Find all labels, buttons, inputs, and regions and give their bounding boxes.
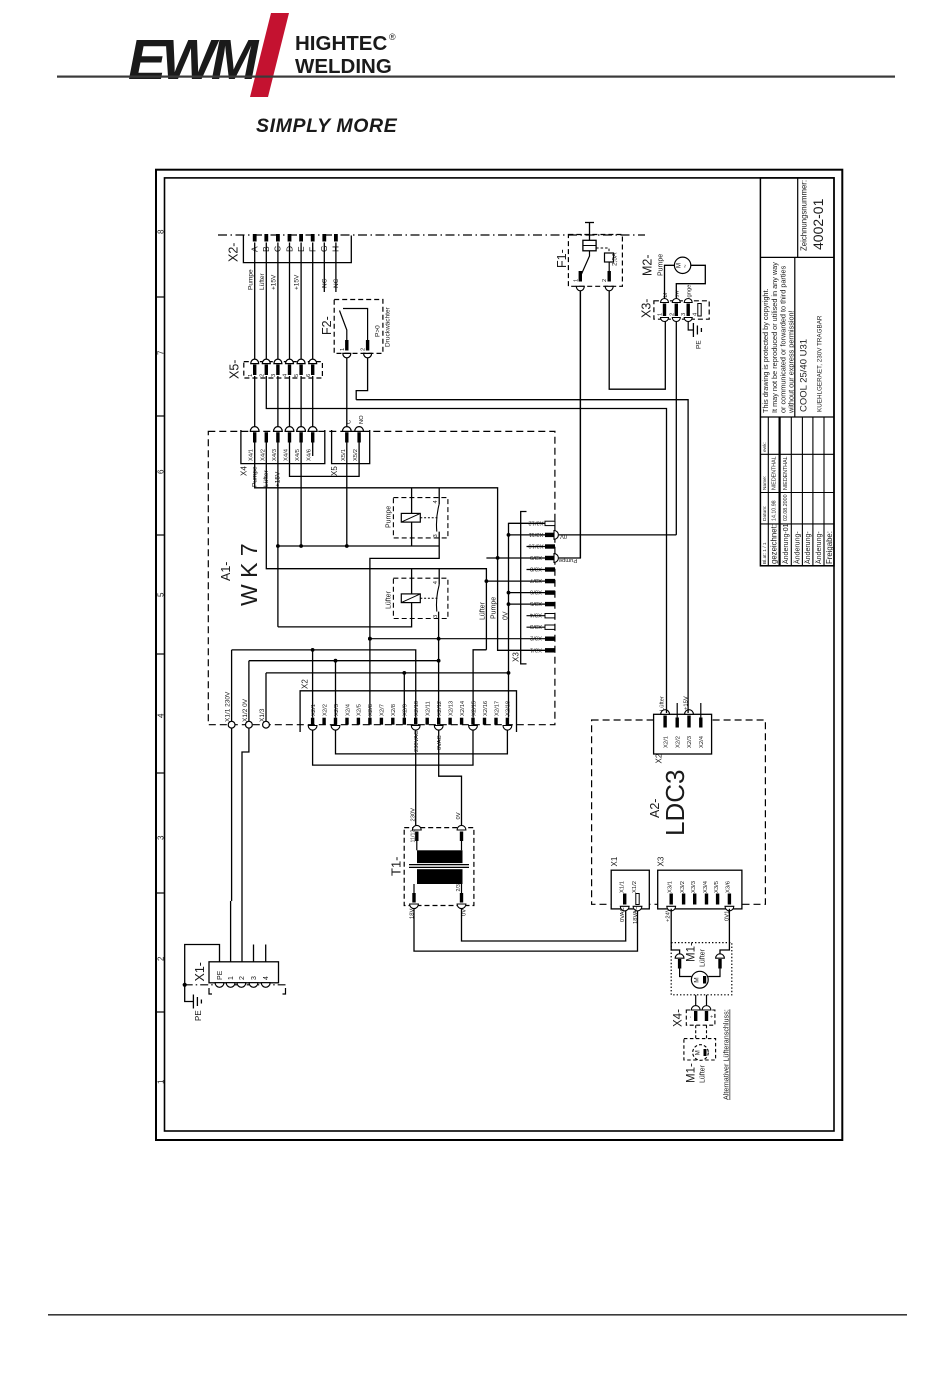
X3/2 row line (370, 638, 545, 640)
svg-text:without our express permission: without our express permission! (787, 310, 796, 414)
wire X3-2 down to 0V line (675, 321, 677, 535)
wire X4/1 to pump drive line (255, 443, 498, 558)
svg-text:gezeichnet:: gezeichnet: (770, 524, 779, 564)
junction bus3 X2/9 (402, 671, 406, 675)
stub X1- pin3 (253, 945, 255, 962)
svg-text:X1/2: X1/2 (632, 881, 638, 893)
svg-text:X2/10: X2/10 (414, 701, 420, 716)
svg-text:X3/11: X3/11 (529, 531, 544, 537)
X2- pin E (299, 234, 303, 242)
svg-text:X2/4: X2/4 (345, 703, 351, 716)
svg-text:X2/1: X2/1 (311, 704, 317, 716)
svg-text:PE: PE (696, 340, 703, 349)
svg-text:X4: X4 (240, 466, 249, 476)
svg-text:X2/13: X2/13 (448, 701, 454, 716)
F2 pin 1 (345, 340, 348, 351)
T1 primary socket arc right (457, 825, 466, 830)
T1 secondary wire left (413, 884, 415, 893)
svg-text:5: 5 (157, 592, 166, 597)
junction X4/3 +15V (276, 544, 280, 548)
line H2 fan supply from X5-2 (266, 376, 666, 713)
junction bus1 X2/1 (311, 648, 315, 652)
svg-text:2: 2 (669, 313, 675, 316)
svg-text:+: + (710, 1015, 716, 1018)
A2 X1 connector box (611, 870, 649, 909)
A2 X3 socket arcs (667, 906, 734, 911)
wire X2-C to X5-3 (277, 243, 279, 362)
svg-text:X1-: X1- (193, 962, 207, 981)
T1 primary pin left (415, 832, 418, 842)
svg-text:NC: NC (322, 278, 329, 288)
svg-text:X4/5: X4/5 (295, 449, 301, 461)
T1 secondary socket arc left (410, 904, 419, 909)
svg-text:T1-: T1- (389, 857, 404, 877)
svg-text:X3/5: X3/5 (714, 881, 720, 893)
junction X3/7 fan rail (485, 579, 489, 583)
F2 pin 1 socket arc (343, 353, 351, 358)
drawing outer frame (156, 170, 842, 1140)
relay K2 Luefter dashed box (393, 578, 448, 618)
X1- mating bracket (209, 988, 212, 994)
svg-text:6: 6 (157, 469, 166, 474)
svg-text:NO: NO (359, 415, 365, 424)
title block divider row1/row2 (760, 256, 834, 258)
wire X4/2 to fan drive line (266, 443, 486, 650)
wire X2/12 arc to T1 primary 0V (439, 730, 462, 825)
svg-text:X2/6: X2/6 (368, 704, 374, 716)
svg-text:X2/18: X2/18 (506, 701, 512, 716)
F2 pin 2 socket arc (364, 353, 372, 358)
X3/9 row line (486, 557, 545, 559)
wire A1-X1/2 down with jog to X1- pin2 (242, 728, 249, 962)
X2- pin F (311, 234, 315, 242)
riser X1/1 (231, 650, 233, 721)
wire X2/18 arc loop to X2/3 arc (336, 730, 508, 754)
bus1 230V line (232, 650, 416, 718)
wire F1/1 down to X3/9 exit line (579, 291, 581, 558)
relay K2 coil (401, 594, 420, 603)
transformer T1- dashed box (404, 828, 474, 906)
svg-text:+15V: +15V (271, 274, 278, 290)
svg-text:M: M (694, 977, 701, 982)
X3/6 row line (509, 592, 546, 594)
svg-text:Lüfter: Lüfter (480, 601, 487, 620)
wire X1- pin1 up (230, 901, 232, 962)
F1 pin 1 socket arc (576, 286, 584, 291)
svg-text:0V: 0V (560, 533, 567, 539)
fan relay contact-4 wire (438, 569, 440, 585)
X3- pin 4 open (698, 304, 701, 317)
T1 primary wire right (461, 841, 463, 850)
svg-text:2: 2 (602, 279, 608, 282)
svg-text:2: 2 (239, 976, 246, 980)
T1 primary socket arc left (412, 825, 421, 830)
X3- pin 2 (675, 304, 678, 317)
wire X5/2 to X4/4 link (290, 443, 360, 477)
svg-text:02.08.2000: 02.08.2000 (783, 494, 789, 521)
svg-text:X5: X5 (330, 466, 339, 476)
X5 pin labels (341, 449, 359, 461)
svg-text:X2/17: X2/17 (494, 701, 500, 716)
F2 switch fixed contact (343, 309, 368, 341)
riser X1/2 (248, 661, 250, 722)
svg-text:X5/2: X5/2 (353, 449, 359, 461)
X5- pin numbers (248, 373, 312, 377)
wire X5-4 through to X4/4 (289, 376, 291, 427)
X2- pin B (264, 234, 268, 242)
wire X3-3 to PE (688, 321, 693, 330)
svg-text:4: 4 (263, 976, 270, 980)
F1 pin 2 socket arc (605, 286, 613, 291)
svg-text:11/12: 11/12 (411, 830, 417, 843)
T1 secondary winding bar (417, 869, 463, 884)
svg-text:X4/4: X4/4 (284, 448, 290, 461)
junction X4/5 +15V (299, 544, 303, 548)
wire X5-3 through to X4/3 (277, 376, 279, 427)
relay K1 contact blade (436, 504, 439, 532)
stub X1- pin4 (265, 945, 267, 962)
X3 pins filled (545, 533, 555, 653)
wire X2-F to X5-6 (312, 243, 314, 362)
svg-text:0V: 0V (462, 909, 468, 916)
X3/8 stub (527, 569, 546, 571)
alt fan dashed box (684, 1039, 716, 1060)
junction X2/6 riser (368, 637, 372, 641)
X3- pin 3 (687, 304, 690, 317)
svg-text:KUEHLGERAET, 230V TRAGBAR: KUEHLGERAET, 230V TRAGBAR (817, 315, 824, 412)
A2 X3 connector box (658, 870, 742, 909)
wire M1 box to X4- left (695, 995, 697, 1009)
svg-text:HIGHTEC: HIGHTEC (295, 32, 387, 55)
alt fan dashed stub left (695, 1025, 697, 1038)
svg-text:It may not be reproduced or ut: It may not be reproduced or utilised in … (770, 262, 779, 413)
svg-text:Änderung-: Änderung- (794, 531, 802, 564)
svg-text:X4/3: X4/3 (272, 449, 278, 461)
wire M1 box to X4- right (706, 995, 708, 1009)
motor M2 circle (674, 257, 690, 273)
M1 terminal right pin (718, 959, 721, 969)
svg-text:Lüfter: Lüfter (700, 1064, 707, 1083)
A2 X1 pin 2 open (636, 894, 639, 905)
svg-text:Freigabe:: Freigabe: (825, 531, 834, 564)
svg-text:X3/3: X3/3 (530, 623, 542, 629)
F1 pin 2 link (608, 262, 610, 271)
svg-text:X1/1: X1/1 (619, 881, 625, 893)
svg-text:X2/3: X2/3 (687, 736, 693, 748)
title block divider row2/row3 (760, 416, 834, 418)
pump rail lower segment (498, 558, 545, 650)
svg-text:X2/5: X2/5 (357, 704, 363, 716)
F1 holder contact (605, 253, 614, 262)
X2- pin H (334, 234, 338, 242)
A1 X1/2 terminal circle (246, 721, 253, 728)
svg-text:X2/12: X2/12 (437, 701, 443, 716)
wire X2/10 arc to T1 primary (415, 730, 417, 825)
mains connector X1- box (209, 962, 279, 983)
T1 core lines (409, 864, 469, 866)
X3/9 exit wire Pumpe (559, 291, 581, 558)
F1 fuse element (583, 240, 596, 251)
svg-text:4: 4 (157, 713, 166, 718)
F2 switch contact (340, 311, 347, 341)
relay K2 contact blade (436, 585, 439, 612)
wire PE loop (185, 945, 220, 1002)
svg-text:F2-: F2- (320, 316, 334, 335)
M1 motor pin mark (703, 976, 706, 984)
svg-text:Pumpe: Pumpe (386, 506, 393, 528)
0V rail junction X3/6 (507, 591, 511, 595)
X2- pin D (288, 234, 292, 242)
relay K1 coil (401, 513, 420, 522)
wire A1-X1/1 down to X1- pin1 (231, 728, 233, 901)
svg-text:SIMPLY MORE: SIMPLY MORE (256, 115, 398, 137)
A2 X1 pins (623, 894, 626, 905)
svg-text:2: 2 (157, 956, 166, 961)
relay K2 mechanical link (420, 597, 437, 599)
svg-text:X3/1: X3/1 (668, 881, 674, 893)
A1 X2 connector bracket (300, 691, 516, 732)
svg-text:2,5A: 2,5A (612, 252, 619, 266)
X2 row pin labels (311, 700, 512, 716)
X3/11 exit wire 0V (559, 534, 677, 536)
svg-text:3: 3 (433, 615, 439, 618)
svg-text:7: 7 (157, 350, 166, 355)
F1 pin 1 (579, 271, 582, 282)
bus3 line (266, 672, 509, 674)
junction bus2 fan contact riser (437, 659, 441, 663)
svg-text:X2/2: X2/2 (322, 704, 328, 716)
svg-text:NIEDENTHAL: NIEDENTHAL (783, 456, 789, 490)
wire X5/1 down to +15V (346, 443, 348, 547)
pump relay contact-4 wire (438, 488, 440, 504)
svg-text:X3/2: X3/2 (530, 635, 542, 641)
svg-text:3: 3 (433, 534, 439, 537)
connector X4- dashed box (686, 1010, 715, 1025)
X1- socket arcs (215, 983, 270, 988)
svg-text:X4/6: X4/6 (307, 449, 313, 461)
X2- pin G (322, 234, 326, 242)
svg-text:X3/6: X3/6 (726, 881, 732, 893)
svg-text:18VAC: 18VAC (633, 906, 639, 924)
svg-text:1: 1 (658, 313, 664, 316)
stub X2-G NC (323, 243, 325, 293)
X3/11 row line (509, 534, 546, 536)
X3 pin labels upside down (528, 519, 543, 652)
svg-text:Änderung-01: Änderung-01 (782, 523, 790, 564)
wire M2 right loop (676, 265, 705, 299)
svg-text:gnge: gnge (687, 285, 693, 298)
svg-text:1: 1 (157, 1079, 166, 1084)
svg-text:14.10.98: 14.10.98 (772, 500, 778, 521)
svg-text:X2: X2 (301, 679, 310, 689)
logo red slash (250, 13, 289, 97)
svg-text:Druckwächter: Druckwächter (385, 306, 392, 347)
revision table strip dividers (768, 417, 824, 566)
svg-text:This drawing is protected by c: This drawing is protected by copyright. (761, 288, 770, 413)
svg-text:Lüfter: Lüfter (700, 948, 707, 967)
fuse F1- dashed box (568, 235, 622, 287)
wire F2/1 down to A1-X5/1 (346, 358, 348, 427)
svg-text:Zeichnungsnummer:: Zeichnungsnummer: (800, 180, 809, 251)
A2 X3 pin labels (668, 880, 732, 893)
X3/11 exit socket arc (554, 531, 558, 540)
X2 row socket arcs below (308, 726, 512, 731)
footer rule (48, 1314, 907, 1316)
A2 X1 pin labels (619, 881, 638, 893)
svg-text:P>0: P>0 (375, 325, 382, 337)
svg-text:6: 6 (306, 374, 312, 377)
connector X2- bracket (243, 236, 351, 263)
wire X2-B to X5-2 (265, 243, 267, 362)
F1 entry wire (589, 223, 591, 241)
X3/7 row line (486, 580, 545, 582)
boundary dash-dot line through X2- pins (218, 234, 645, 236)
svg-text:X2/1: X2/1 (663, 736, 669, 748)
svg-text:X3: X3 (657, 856, 666, 866)
svg-text:+15V: +15V (294, 274, 301, 290)
svg-text:X2-: X2- (227, 243, 241, 262)
svg-text:X1: X1 (610, 856, 619, 866)
svg-text:X3/4: X3/4 (703, 880, 709, 893)
grid ticks left edge (156, 297, 165, 1012)
svg-text:ewk:: ewk: (762, 442, 768, 452)
svg-text:X2/4: X2/4 (699, 735, 705, 748)
svg-text:NIEDENTHAL: NIEDENTHAL (772, 456, 778, 490)
A1 X3 connector bracket (521, 512, 527, 664)
X3 pins open (545, 521, 555, 629)
X3- pin numbers (658, 312, 699, 316)
relay K1 mechanical link (420, 517, 437, 519)
junction fan line X2/6 (368, 637, 372, 641)
junction PE on dash-dot (183, 983, 187, 987)
svg-text:X3/9: X3/9 (530, 554, 542, 560)
relay K1 coil diagonal (401, 513, 420, 522)
drawing inner frame (165, 178, 835, 1131)
X2- pin A (253, 234, 257, 242)
T1 primary pin right (460, 832, 463, 842)
A1 X1/1 terminal circle (228, 721, 235, 728)
svg-text:M1-: M1- (686, 1063, 698, 1083)
T1 secondary socket arc right (457, 904, 466, 909)
X3/10 stub (527, 546, 546, 548)
svg-text:X2/8: X2/8 (391, 704, 397, 716)
0V rail (509, 523, 546, 717)
svg-text:8: 8 (157, 229, 166, 234)
stub X4/6 (312, 443, 314, 457)
wire M1 right terminal to motor (708, 969, 720, 977)
wire X2-A to X5-1 (254, 243, 256, 362)
svg-text:M: M (677, 263, 683, 268)
svg-text:WELDING: WELDING (295, 55, 392, 78)
svg-text:X3/12: X3/12 (528, 519, 543, 525)
M1 motor circle (691, 971, 708, 988)
pressure switch F2- dashed box (334, 300, 383, 354)
X3- socket arcs bottom (661, 318, 693, 322)
A2 X3 pins (670, 894, 732, 905)
riser X2/9 to bus3 (403, 673, 405, 718)
T1 secondary pin left (412, 893, 415, 903)
svg-text:Lüfter: Lüfter (660, 696, 666, 711)
relay K1 contact-3 to X2/6 riser (370, 532, 439, 718)
alt fan motor pin mark (704, 1049, 707, 1056)
svg-text:X2/16: X2/16 (483, 701, 489, 716)
svg-text:X2/9: X2/9 (403, 704, 409, 716)
wire X2-E to X5-5 (300, 243, 302, 362)
T1 secondary pin right (460, 893, 463, 903)
svg-text:X3/5: X3/5 (530, 600, 542, 606)
line H1 pump supply (356, 400, 688, 713)
A2 X2 pin labels (663, 735, 705, 748)
svg-text:1: 1 (340, 348, 346, 351)
svg-text:NC: NC (333, 278, 340, 288)
svg-text:X3/10: X3/10 (528, 543, 543, 549)
svg-text:X3/3: X3/3 (691, 881, 697, 893)
relay K2 contact-3 riser to X2/12 (438, 612, 440, 718)
M1 terminal left arc (675, 954, 684, 958)
svg-text:X3/7: X3/7 (530, 577, 542, 583)
X3- socket arcs top (661, 299, 693, 303)
svg-text:3: 3 (271, 374, 277, 377)
A2 X2 pin stubs (676, 703, 678, 718)
svg-text:X2/2: X2/2 (675, 736, 681, 748)
svg-text:X2/7: X2/7 (380, 704, 386, 716)
X1- pin labels (217, 970, 270, 980)
pump relay coil top wire (411, 488, 413, 514)
relay K2 coil bottom wire (278, 603, 412, 627)
relay K1 coil bottom wire (411, 522, 413, 546)
connector X5- dashed box (244, 362, 323, 378)
svg-text:X5/1: X5/1 (341, 449, 347, 461)
T1 secondary wire right (461, 884, 463, 893)
svg-text:W K 7: W K 7 (236, 543, 262, 606)
header rule (57, 76, 895, 78)
earth symbol at X3- (693, 323, 701, 337)
svg-text:Pumpe: Pumpe (658, 254, 665, 276)
A1 X1/3 terminal circle (263, 721, 270, 728)
svg-text:~: ~ (683, 264, 689, 268)
svg-text:M2-: M2- (641, 254, 655, 276)
relay K1 Pumpe dashed box (393, 498, 448, 538)
X4- pins (694, 1011, 708, 1021)
X1- mating bracket right (283, 988, 286, 994)
X5- contact arcs (251, 359, 317, 364)
riser X2/3 to bus2 (335, 661, 337, 718)
svg-text:X1/3: X1/3 (259, 708, 266, 722)
title block row1 split (797, 178, 799, 258)
svg-text:F1-: F1- (555, 249, 569, 268)
alt fan dashed stub right (706, 1025, 708, 1038)
svg-text:Änderung-: Änderung- (815, 531, 823, 564)
wire X4/5 down to +15V (300, 443, 302, 547)
F1 switch blade (582, 251, 590, 274)
A2 X2 socket arcs (661, 710, 694, 715)
svg-text:Lüfter: Lüfter (386, 590, 393, 609)
X4 pin labels (249, 448, 313, 461)
svg-text:X1/1 230V: X1/1 230V (225, 691, 232, 722)
wire X4/3 +15V down (277, 443, 279, 627)
relay K2 coil diagonal (401, 594, 420, 603)
svg-text:LDC3: LDC3 (660, 770, 690, 836)
wire T1 secondary 0V to A2-X1/1 (462, 909, 626, 941)
A2 X2 connector box (654, 714, 712, 754)
alt fan motor dashed circle (693, 1045, 709, 1061)
svg-text:X5-: X5- (228, 360, 242, 379)
svg-text:X4/2: X4/2 (260, 449, 266, 461)
wire X5-6 through to X4/6 (312, 376, 314, 427)
svg-text:Änderung-: Änderung- (804, 531, 812, 564)
svg-text:X4/1: X4/1 (249, 449, 255, 461)
F1 pin 2 (608, 271, 611, 282)
